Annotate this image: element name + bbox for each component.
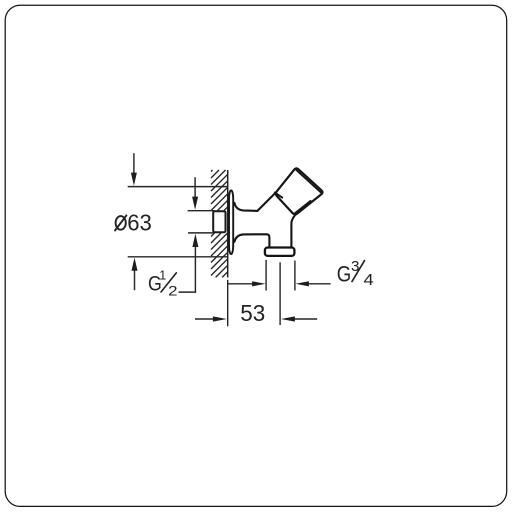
- svg-text:53: 53: [240, 300, 265, 326]
- svg-text:2: 2: [168, 282, 178, 298]
- svg-text:63: 63: [127, 210, 152, 236]
- svg-text:G: G: [337, 262, 352, 287]
- svg-text:4: 4: [364, 272, 375, 289]
- svg-text:1: 1: [159, 269, 166, 283]
